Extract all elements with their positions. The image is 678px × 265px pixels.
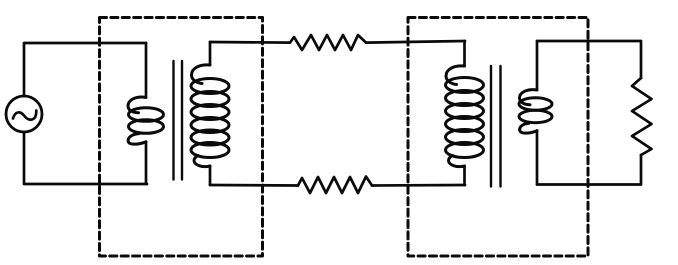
wire bottom line to resistor R2 [210, 184, 298, 187]
wire T2 secondary upper stub [536, 41, 539, 90]
wire primary lower stub [145, 142, 148, 184]
wire T2 primary lower stub [463, 166, 466, 185]
wire top line to resistor R1 [210, 41, 290, 44]
wire secondary upper stub [209, 42, 212, 65]
wire T2 secondary lower stub [536, 131, 539, 185]
ac source V1 [6, 96, 42, 132]
wire top-right loop [537, 41, 641, 78]
wire primary upper stub [145, 43, 148, 97]
wire bottom-right loop [537, 155, 641, 185]
inductor T1 primary winding [128, 97, 164, 144]
resistor R3 load [632, 78, 652, 155]
transformer T1 dashed enclosure [100, 18, 263, 257]
transformer T1 core [174, 61, 183, 180]
wire top line from resistor R1 [366, 41, 465, 43]
inductor T2 secondary winding [519, 90, 552, 133]
transformer T2 dashed enclosure [408, 18, 588, 257]
wire secondary lower stub [209, 166, 212, 185]
inductor T2 primary winding [446, 66, 484, 167]
inductor T1 secondary winding [191, 65, 229, 167]
resistor R2 [298, 177, 372, 194]
wire T2 primary upper stub [463, 41, 466, 66]
wire bottom line from resistor R2 [372, 184, 465, 187]
wire top-left loop [24, 43, 146, 96]
wire bottom-left loop [24, 132, 147, 184]
resistor R1 [290, 35, 366, 50]
transformer T2 core [491, 66, 501, 187]
